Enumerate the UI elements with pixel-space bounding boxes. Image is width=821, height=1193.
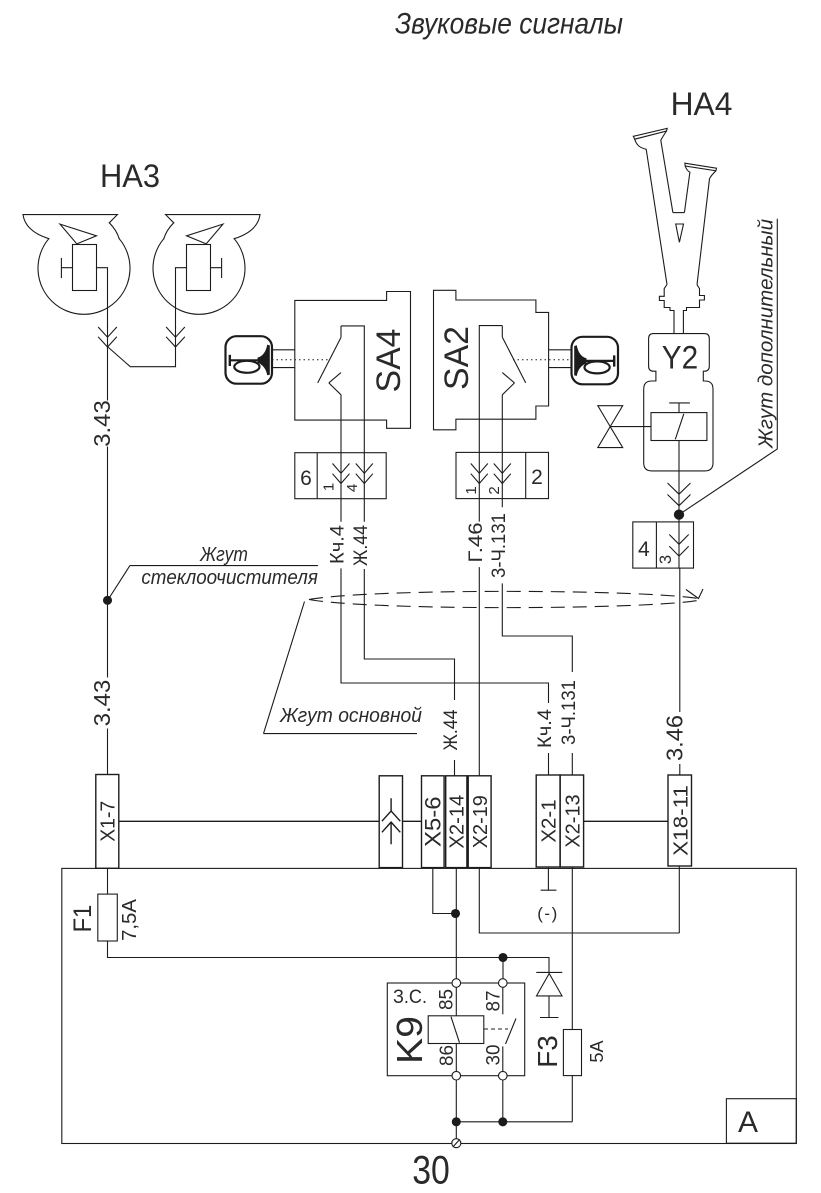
svg-text:Г.46: Г.46	[466, 522, 487, 562]
svg-text:6: 6	[300, 467, 312, 490]
svg-text:HA3: HA3	[100, 158, 160, 194]
svg-text:5A: 5A	[587, 1040, 607, 1062]
svg-text:Жгут: Жгут	[199, 544, 248, 566]
svg-text:Кч.4: Кч.4	[535, 709, 556, 748]
svg-text:7,5A: 7,5A	[119, 898, 141, 941]
svg-text:SA2: SA2	[438, 326, 476, 390]
svg-text:HA4: HA4	[671, 86, 733, 122]
svg-text:87: 87	[484, 991, 505, 1012]
svg-text:3.46: 3.46	[661, 715, 687, 761]
svg-text:Ж.44: Ж.44	[351, 525, 372, 566]
svg-text:X18-11: X18-11	[670, 785, 692, 856]
svg-text:3.43: 3.43	[89, 680, 115, 727]
svg-text:2: 2	[486, 486, 503, 494]
svg-text:A: A	[738, 1106, 758, 1139]
svg-text:2: 2	[531, 466, 543, 489]
svg-text:3.43: 3.43	[89, 400, 115, 447]
svg-text:Жгут основной: Жгут основной	[279, 705, 422, 727]
svg-text:K9: K9	[389, 1016, 430, 1064]
svg-text:X5-6: X5-6	[421, 796, 446, 847]
svg-text:30: 30	[484, 1045, 505, 1066]
svg-text:X2-19: X2-19	[470, 795, 492, 848]
svg-text:Звуковые сигналы: Звуковые сигналы	[395, 8, 623, 41]
svg-text:Жгут дополнительный: Жгут дополнительный	[756, 219, 778, 449]
svg-text:X2-14: X2-14	[447, 795, 469, 849]
svg-text:(-): (-)	[537, 904, 558, 923]
svg-text:3-Ч.131: 3-Ч.131	[489, 513, 510, 578]
svg-text:1: 1	[463, 486, 480, 494]
svg-text:3: 3	[657, 555, 675, 564]
svg-text:85: 85	[437, 989, 458, 1010]
svg-text:Кч.4: Кч.4	[328, 525, 349, 564]
svg-text:3-Ч.131: 3-Ч.131	[559, 680, 580, 745]
svg-text:X1-7: X1-7	[98, 801, 120, 842]
svg-text:X2-13: X2-13	[562, 794, 584, 847]
svg-text:X2-1: X2-1	[538, 799, 560, 842]
svg-text:30: 30	[412, 1149, 450, 1193]
svg-text:4: 4	[638, 538, 650, 561]
svg-text:SA4: SA4	[370, 329, 408, 393]
svg-text:Y2: Y2	[662, 340, 698, 376]
svg-text:F1: F1	[69, 905, 97, 933]
svg-text:4: 4	[344, 484, 361, 492]
svg-text:З.С.: З.С.	[393, 987, 427, 1008]
svg-text:F3: F3	[532, 1035, 563, 1067]
svg-text:стеклоочистителя: стеклоочистителя	[141, 567, 318, 589]
svg-text:86: 86	[437, 1045, 458, 1066]
svg-text:1: 1	[321, 483, 338, 491]
svg-text:Ж.44: Ж.44	[441, 709, 462, 750]
